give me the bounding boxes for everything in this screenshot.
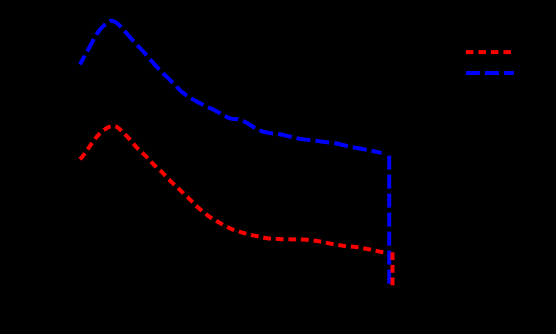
legend red sample: [466, 50, 514, 54]
blue curve vertical drop: [387, 156, 391, 284]
blue dashed curve: [80, 21, 382, 153]
red curve vertical drop: [391, 252, 395, 285]
legend blue sample: [466, 71, 514, 75]
red dashed curve: [80, 126, 386, 253]
